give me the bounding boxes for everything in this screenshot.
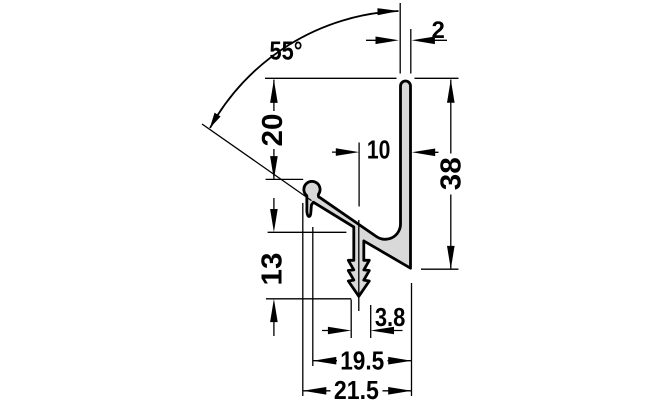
10 arrow tails — [332, 151, 353, 153]
arrowheads (filled, slender) — [210, 8, 455, 394]
3.8 right arrow <- — [371, 327, 394, 335]
top horizontal extension y=78.3 left of wall — [265, 77, 397, 79]
vertical ext x=351.2 (3.8 left) — [350, 300, 352, 339]
svg-text:19.5: 19.5 — [340, 345, 384, 375]
svg-text:3.8: 3.8 — [375, 302, 406, 332]
21.5 dim line y=390.8 — [303, 390, 331, 392]
vertical ext x=370.7 (3.8 right) — [370, 305, 372, 338]
vertical ext x=302.8 (21.5 left) — [302, 203, 304, 396]
19.5 left arrow <- — [313, 357, 336, 365]
svg-text:13: 13 — [256, 253, 288, 286]
2 arrows tails — [366, 39, 392, 41]
3.8 arrow tails — [322, 330, 345, 332]
19.5 right arrow -> — [388, 357, 411, 365]
20 bottom arrow v — [270, 156, 278, 179]
21.5 left arrow <- — [303, 387, 326, 395]
13-top extension y=232.3 — [268, 231, 347, 233]
20-bottom extension y=179.4 — [266, 178, 304, 180]
38 top arrow ^ — [447, 80, 455, 103]
svg-text:55°: 55° — [270, 36, 303, 66]
svg-text:2: 2 — [432, 17, 445, 44]
vertical ext x=312.8 (19.5 left) — [312, 227, 314, 366]
55deg construction line — [202, 124, 312, 201]
svg-text:20: 20 — [257, 114, 289, 147]
wall-left extension above (x=400.2) — [399, 3, 401, 74]
vertical ext x=411.5 below tip — [411, 283, 413, 396]
20 dim line segments x=273.9 — [273, 80, 275, 111]
arc bottom arrow, pointing down-left — [210, 113, 221, 129]
wall-right extension above (x=410.8) — [410, 29, 412, 74]
19.5 dim line y=360.7 — [313, 360, 337, 362]
13 outside arrow shafts x=273.9 — [273, 198, 275, 226]
10 right arrow <- — [412, 149, 435, 157]
2 right arrow <- — [412, 37, 435, 45]
2 left arrow -> — [376, 37, 399, 45]
10 left arrow -> — [336, 148, 359, 156]
13-bottom extension y=298.8 — [266, 298, 351, 300]
profile body (aluminium extrusion cross-section) — [304, 81, 411, 296]
3.8 left arrow -> — [328, 327, 351, 335]
arc top arrow, pointing right — [377, 8, 399, 15]
38 dim line segments x=450.8 — [450, 80, 452, 154]
38 bottom extension y=269.2 — [421, 268, 459, 270]
dimension labels — [256, 17, 467, 400]
svg-text:10: 10 — [367, 135, 391, 165]
21.5 right arrow -> — [388, 387, 411, 395]
svg-text:21.5: 21.5 — [334, 375, 379, 400]
spigot centerline x=358.8 — [358, 220, 360, 311]
55 degree dimension arc — [210, 11, 399, 128]
13 top outside arrow v — [270, 209, 278, 232]
10 extension x=359.1 — [358, 143, 360, 207]
thin lines — [202, 3, 459, 396]
svg-text:38: 38 — [436, 157, 468, 190]
13 bottom outside arrow ^ — [270, 299, 278, 322]
38 bottom arrow v — [447, 246, 455, 269]
top horizontal extension y=78.3 right of wall — [415, 77, 459, 79]
20 top arrow ^ — [270, 80, 278, 103]
